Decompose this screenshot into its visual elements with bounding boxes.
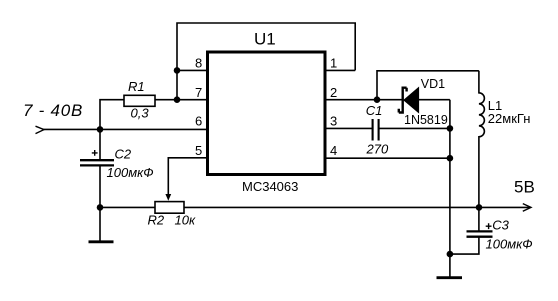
label C2 value 100мкФ — [107, 165, 154, 180]
svg-text:MC34063: MC34063 — [242, 179, 298, 194]
diode VD1 triangle — [404, 88, 419, 113]
wire top loop pin8 to pin1 — [177, 23, 355, 100]
svg-text:0,3: 0,3 — [131, 105, 150, 120]
wire diode anode lead — [419, 99, 450, 101]
label R1 — [128, 79, 145, 94]
svg-text:4: 4 — [330, 143, 337, 158]
svg-text:1: 1 — [330, 56, 337, 71]
node junction input / C2 / R1 — [97, 126, 104, 133]
potentiometer R2 — [155, 202, 184, 214]
pin number 6 — [195, 114, 202, 129]
wire pin 2 to diode — [325, 99, 402, 101]
svg-text:R2: R2 — [148, 213, 165, 228]
svg-text:7 - 40В: 7 - 40В — [23, 101, 83, 120]
input arrow — [36, 126, 45, 133]
inductor L1 — [479, 71, 485, 231]
node junction at pin 7 — [174, 96, 181, 103]
label C3 value 100мкФ — [486, 236, 533, 251]
wire C3 bottom to ground rail — [450, 237, 479, 254]
resistor R1 — [124, 95, 155, 106]
label C1 value 270 — [366, 142, 389, 157]
label 0,3 — [131, 105, 150, 120]
svg-text:C1: C1 — [366, 103, 383, 118]
svg-text:C2: C2 — [115, 146, 132, 161]
wire ground rail vertical — [449, 100, 451, 277]
svg-text:100мкФ: 100мкФ — [107, 165, 154, 180]
svg-text:U1: U1 — [254, 30, 276, 49]
wire output to arrow — [479, 206, 530, 208]
node junction C2 / R2 left — [97, 204, 104, 211]
pin number 7 — [195, 85, 202, 100]
label output voltage 5В — [514, 178, 535, 197]
capacitor C1 — [373, 119, 379, 141]
svg-text:1N5819: 1N5819 — [404, 113, 448, 127]
label R2 value 10к — [175, 213, 196, 228]
svg-text:C3: C3 — [492, 218, 509, 233]
pin number 4 — [330, 143, 337, 158]
svg-text:8: 8 — [195, 56, 202, 71]
pin number 3 — [330, 114, 337, 129]
pin number 5 — [195, 143, 202, 158]
capacitor C3 — [467, 231, 493, 236]
wire pin 8 stub — [177, 69, 207, 71]
svg-text:R1: R1 — [128, 79, 145, 94]
label plus of C3 — [486, 223, 492, 229]
pin number 2 — [330, 85, 337, 100]
label L1 — [488, 98, 502, 113]
wire pin 1 stub — [325, 69, 355, 71]
label L1 value 22мкГн — [488, 111, 531, 126]
label 1N5819 — [404, 113, 448, 127]
wire R2 left lead — [100, 206, 155, 208]
node junction pin 4 / ground rail — [447, 155, 454, 162]
wire pin 4 to ground rail — [325, 157, 450, 159]
wire C1 to ground rail — [379, 127, 450, 129]
svg-text:VD1: VD1 — [421, 77, 445, 91]
ground right — [437, 276, 463, 279]
pin number 1 — [330, 56, 337, 71]
wire pin 7 stub — [155, 99, 207, 101]
wire R2 right to output — [184, 206, 479, 208]
wire R1 left lead — [100, 100, 124, 130]
label C2 — [115, 146, 132, 161]
svg-text:100мкФ: 100мкФ — [486, 236, 533, 251]
pin number 8 — [195, 56, 202, 71]
label R2 — [148, 213, 165, 228]
wire C2 bottom to ground — [99, 165, 101, 242]
R2 wiper arrow head — [165, 194, 171, 201]
wire vertical rail to C2 — [99, 129, 101, 160]
wire pin2 junction up and over to L1 — [377, 71, 479, 100]
label VD1 — [421, 77, 445, 91]
wire input to pin 6 — [44, 128, 208, 130]
svg-text:10к: 10к — [175, 213, 196, 228]
ground left — [89, 240, 114, 243]
label input voltage 7 - 40В — [23, 101, 83, 120]
node junction C3 ground / rail — [447, 251, 454, 258]
svg-text:2: 2 — [330, 85, 337, 100]
op-amp U1 IC body MC34063 — [208, 52, 326, 175]
label U1 — [254, 30, 276, 49]
wire pin 3 to C1 — [325, 127, 373, 129]
node junction pin 2 / L1 — [374, 96, 381, 103]
svg-text:22мкГн: 22мкГн — [488, 111, 531, 126]
node junction output / C3 — [476, 204, 483, 211]
label C1 — [366, 103, 383, 118]
label plus of C2 — [92, 150, 98, 156]
wire pin 5 to R2 wiper — [168, 158, 207, 195]
diode VD1 schottky cathode bar — [399, 88, 407, 113]
svg-text:3: 3 — [330, 114, 337, 129]
node junction C1 / ground rail — [447, 125, 454, 132]
svg-text:7: 7 — [195, 85, 202, 100]
svg-text:5: 5 — [195, 143, 202, 158]
label MC34063 — [242, 179, 298, 194]
svg-text:6: 6 — [195, 114, 202, 129]
label C3 — [492, 218, 509, 233]
capacitor C2 — [80, 160, 114, 165]
output arrow — [523, 204, 531, 212]
node junction at pin 8 — [174, 67, 181, 74]
svg-text:5В: 5В — [514, 178, 535, 197]
svg-text:270: 270 — [366, 142, 389, 157]
